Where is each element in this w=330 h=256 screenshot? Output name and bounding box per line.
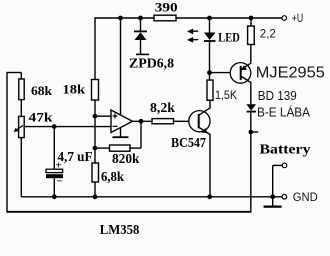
wire 68k to pot: [20, 100, 22, 117]
wire BC547 emitter to ground rail: [209, 134, 211, 197]
svg-text:BC547: BC547: [171, 135, 206, 150]
resistor 6,8k: [92, 163, 99, 182]
op-amp U1 (LM358) triangle: [111, 110, 133, 133]
node 6,8k on ground rail: [93, 194, 98, 199]
svg-text:B-E LÁBA: B-E LÁBA: [257, 105, 310, 120]
svg-text:47k: 47k: [29, 110, 54, 125]
node output: [139, 119, 144, 124]
wire feedback down from output: [140, 121, 142, 148]
wire stub right of node: [251, 131, 258, 133]
terminal GND: [282, 195, 287, 200]
resistor 390: [154, 15, 176, 21]
resistor 1,5K: [207, 80, 213, 100]
svg-text:8,2k: 8,2k: [150, 100, 175, 115]
wire battery terminal: [273, 164, 283, 166]
terminal Battery plus: [282, 163, 287, 168]
diode BD 139 B-E junction: [246, 104, 256, 110]
op-amp minus sign: [113, 125, 118, 127]
svg-text:GND: GND: [293, 190, 318, 204]
node with stub: [249, 130, 254, 135]
wire rail to 2,2: [250, 18, 252, 26]
svg-text:390: 390: [155, 0, 178, 15]
op-amp V- pin and ground bar: [120, 128, 122, 138]
wire BC547 collector to 1,5K: [209, 100, 211, 108]
wire pot bottom to ground rail corner: [20, 138, 22, 197]
wire 68k top lead: [20, 73, 22, 80]
svg-text:Battery: Battery: [260, 143, 311, 158]
svg-text:+U: +U: [292, 13, 304, 25]
wire 6,8k bottom to ground rail: [94, 182, 96, 197]
wire MJE collector down: [250, 82, 252, 104]
wire rail corner down to 18k: [94, 17, 96, 79]
op-amp plus sign: [113, 115, 118, 117]
node on rail at zener column: [138, 16, 143, 21]
wire cap bottom lead: [53, 178, 55, 197]
svg-text:820k: 820k: [112, 151, 140, 166]
svg-text:ZPD6,8: ZPD6,8: [129, 57, 174, 72]
wire feedback row to 820k: [95, 147, 110, 149]
resistor 68k: [19, 79, 24, 100]
node cap on ground rail: [52, 194, 57, 199]
potentiometer 47k: [19, 116, 25, 137]
transistor Q1 BC547: [189, 111, 210, 132]
svg-text:18k: 18k: [63, 82, 86, 97]
resistor 8,2k: [152, 119, 174, 124]
svg-text:68k: 68k: [31, 83, 53, 98]
wire bottom return rail: [6, 211, 251, 213]
wire 820k to feedback column: [130, 147, 141, 149]
svg-text:LED: LED: [218, 30, 240, 44]
wire top +U rail: [95, 17, 283, 19]
resistor 2,2: [248, 26, 255, 45]
svg-text:6,8k: 6,8k: [101, 169, 124, 184]
wire LED column from rail: [209, 18, 211, 33]
wire 18k bottom down to 6,8k: [94, 101, 96, 164]
LED arrow upper: [189, 30, 199, 32]
wire to MJE2955 base: [210, 72, 231, 74]
svg-text:1,5K: 1,5K: [215, 88, 237, 102]
resistor 820k: [110, 145, 131, 151]
LED arrow lower: [189, 39, 199, 41]
wire opamp output: [133, 120, 153, 122]
wire to opamp plus input: [95, 115, 111, 117]
node battery branch on ground rail: [270, 194, 275, 199]
transistor Q2 MJE2955: [230, 63, 251, 84]
wire diode down to bottom return rail: [250, 112, 252, 212]
svg-text:LM358: LM358: [100, 223, 140, 238]
svg-text:2,2: 2,2: [260, 27, 276, 41]
wire pot wiper to opamp minus input: [22, 126, 111, 128]
capacitor C1 4,7uF: [46, 169, 63, 172]
svg-text:4,7 uF: 4,7 uF: [58, 149, 93, 164]
wire bracket to 68k top: [6, 72, 21, 74]
node LED / 1,5K / MJE base: [207, 70, 212, 75]
node opamp plus input: [93, 114, 98, 119]
node on rail at 2,2 column: [249, 16, 254, 21]
wire inner ground rail: [21, 196, 282, 198]
resistor 18k: [92, 80, 99, 101]
svg-text:MJE2955: MJE2955: [256, 65, 325, 82]
LED diode: [204, 33, 216, 41]
svg-text:−: −: [57, 176, 63, 188]
wire left return column: [6, 73, 8, 212]
node cap top on minus input wire: [52, 124, 57, 129]
wire 2,2 to MJE emitter: [250, 45, 252, 64]
node emitter on ground rail: [207, 194, 212, 199]
node on rail at LED column: [207, 16, 212, 21]
terminal +U: [282, 16, 287, 21]
zener ZPD6,8 wire from rail: [140, 18, 142, 31]
node feedback divider: [93, 146, 98, 151]
wire cap top lead: [53, 127, 55, 169]
wire 8,2k to BC547 base: [174, 120, 190, 122]
wire opamp V+ supply column: [120, 18, 122, 115]
node on rail at opamp supply column: [118, 16, 123, 21]
ground bar battery minus: [264, 206, 282, 208]
svg-text:BD 139: BD 139: [258, 88, 297, 103]
zener diode ZPD6,8: [134, 30, 147, 32]
